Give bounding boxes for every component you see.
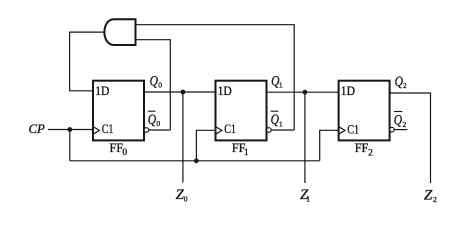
svg-text:2: 2	[433, 195, 437, 204]
svg-text:FF: FF	[110, 141, 124, 155]
svg-text:1: 1	[279, 119, 283, 128]
and gate G1	[104, 19, 135, 45]
flip-flop FF1 clock edge triangle	[216, 127, 222, 135]
svg-text:Q: Q	[395, 74, 403, 90]
svg-text:2: 2	[403, 81, 407, 90]
node CP junction	[67, 127, 72, 132]
svg-text:Q: Q	[271, 112, 279, 128]
overbar of Q1-bar label	[271, 110, 279, 112]
svg-text:Z: Z	[424, 187, 433, 203]
svg-text:Q: Q	[394, 112, 402, 128]
svg-text:0: 0	[156, 119, 160, 128]
node clock bus junction FF1	[194, 158, 199, 163]
svg-text:2: 2	[403, 120, 407, 129]
node Q0 junction	[181, 90, 186, 95]
svg-text:1D: 1D	[218, 84, 232, 98]
svg-text:FF: FF	[355, 141, 369, 155]
flip-flop FF0 Qbar bubble	[144, 128, 149, 133]
flip-flop FF0 clock edge triangle	[93, 127, 99, 135]
svg-text:1D: 1D	[95, 84, 109, 98]
svg-text:C1: C1	[224, 122, 236, 136]
wire Q1-bar stub	[271, 129, 294, 131]
flip-flop FF2 box	[339, 81, 390, 141]
wire Q0 to FF1 D	[144, 91, 216, 93]
overbar of Q2-bar label	[394, 111, 403, 113]
node Q1 junction	[303, 90, 308, 95]
svg-text:0: 0	[122, 148, 127, 158]
wire CP lead	[48, 129, 93, 131]
wire AND output to FF0 D input	[70, 32, 105, 91]
svg-text:Q: Q	[148, 112, 156, 128]
wire Z1 drop	[304, 92, 306, 183]
flip-flop FF0 box	[93, 81, 144, 141]
svg-text:1: 1	[306, 195, 310, 204]
wire FF1 clock branch	[196, 130, 215, 161]
wire AND top input from Q1-bar	[136, 25, 295, 130]
svg-text:CP: CP	[29, 122, 46, 136]
flip-flop FF2 clock edge triangle	[339, 127, 345, 135]
svg-text:1D: 1D	[341, 84, 355, 98]
wire clock bus bottom	[70, 160, 320, 162]
wire CP drop	[69, 130, 71, 161]
overbar of Q0-bar label	[148, 110, 156, 112]
svg-text:0: 0	[158, 80, 162, 89]
wire AND bottom input from Q0-bar	[136, 40, 171, 130]
wire Q1 to FF2 D	[267, 91, 339, 93]
wire Q2 to Z2	[390, 93, 431, 183]
flip-flop FF1 Qbar bubble	[267, 128, 272, 133]
svg-text:C1: C1	[102, 122, 114, 136]
svg-text:C1: C1	[347, 122, 359, 136]
svg-text:Q: Q	[150, 74, 158, 90]
flip-flop FF1 box	[216, 81, 267, 141]
wire Q2-bar stub	[394, 129, 407, 131]
svg-text:1: 1	[244, 148, 249, 158]
flip-flop FF2 Qbar bubble	[390, 127, 395, 132]
wire Q0-bar stub	[149, 129, 171, 131]
wire Z0 drop	[182, 92, 184, 183]
svg-text:2: 2	[368, 148, 373, 158]
svg-text:1: 1	[279, 80, 283, 89]
svg-text:0: 0	[184, 195, 188, 204]
wire FF2 clock branch	[320, 130, 339, 161]
